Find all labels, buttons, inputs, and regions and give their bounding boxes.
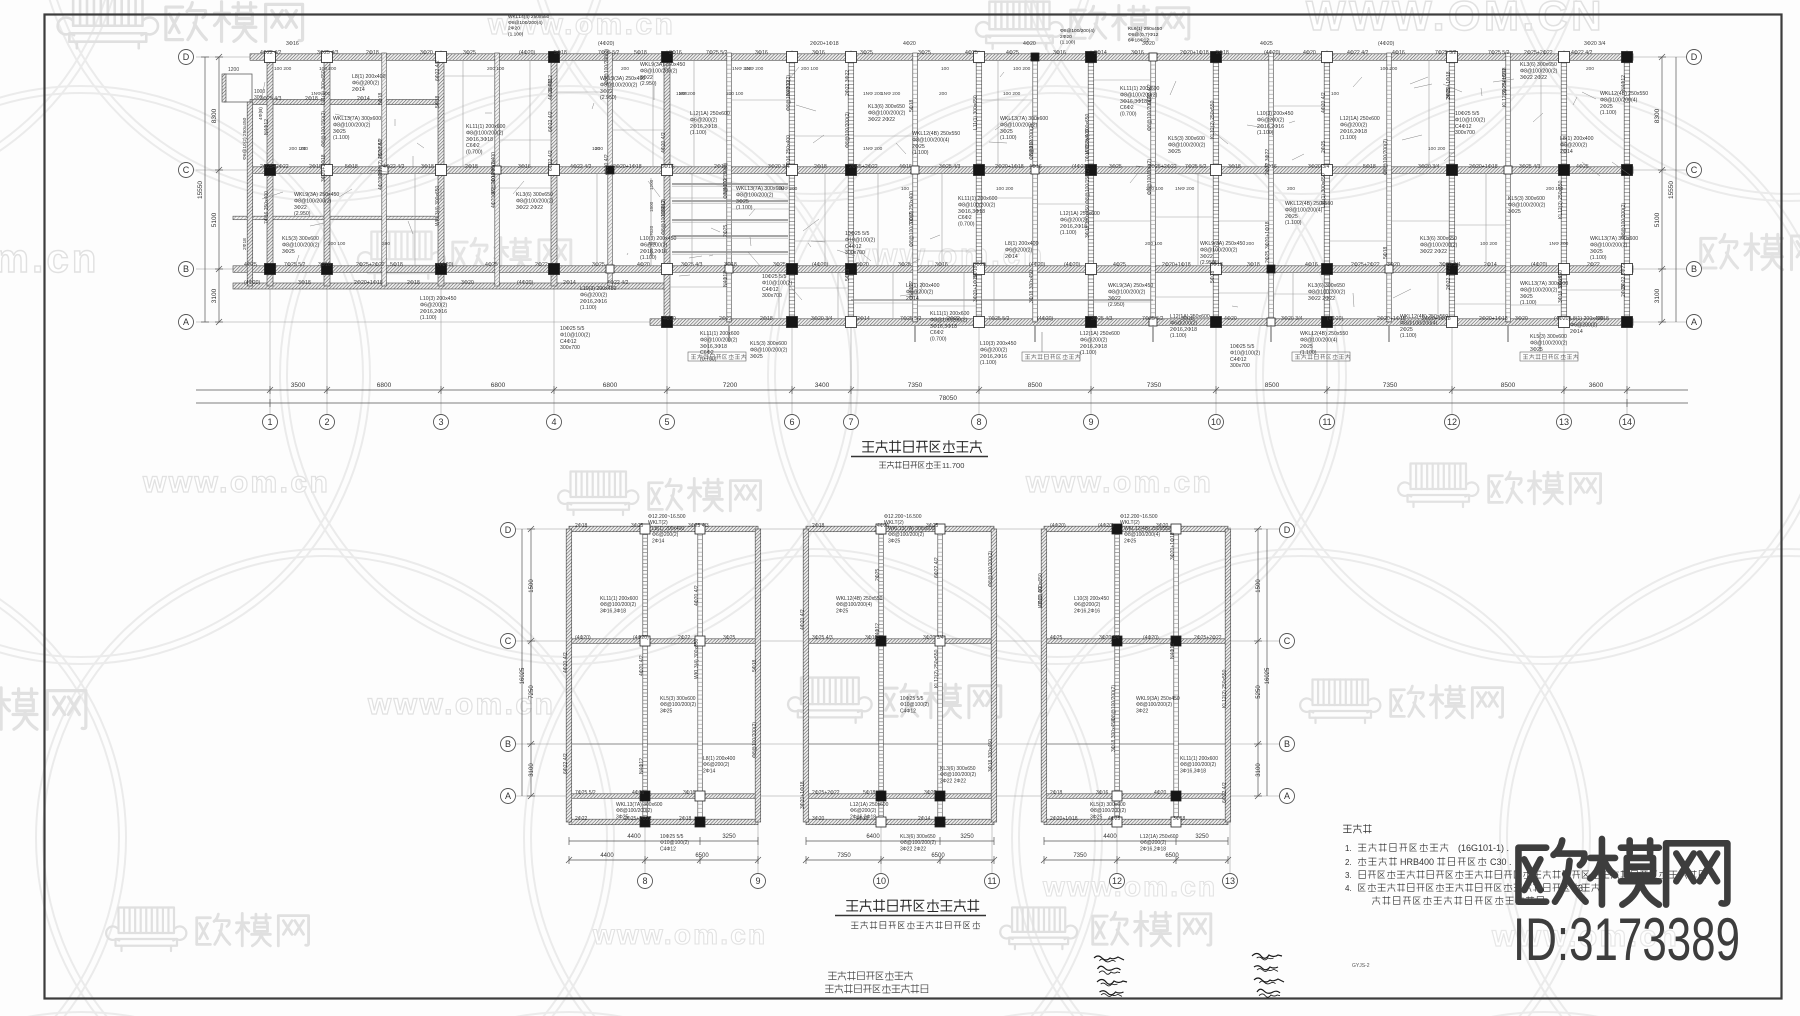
- axis line A: [196, 321, 1688, 323]
- svg-text:L8(1) 200x400: L8(1) 200x400: [703, 756, 735, 762]
- svg-text:4400: 4400: [600, 853, 614, 859]
- svg-text:3Φ20: 3Φ20: [812, 816, 825, 822]
- svg-text:3Φ25: 3Φ25: [1508, 209, 1521, 215]
- svg-text:2Φ16,2Φ18: 2Φ16,2Φ18: [1170, 327, 1197, 333]
- svg-text:Φ6@200(2): Φ6@200(2): [352, 80, 380, 86]
- beam lower-left edge: [233, 283, 667, 289]
- left vertical dimension chain: [201, 54, 223, 325]
- svg-text:1500: 1500: [529, 579, 535, 593]
- svg-text:(4Φ20): (4Φ20): [1050, 523, 1066, 529]
- svg-text:6800: 6800: [377, 382, 392, 389]
- svg-text:WKL9(3A) 250x450: WKL9(3A) 250x450: [1136, 696, 1180, 702]
- svg-text:100 200: 100 200: [996, 186, 1014, 192]
- svg-text:2Φ18: 2Φ18: [575, 523, 588, 529]
- svg-text:3Φ20: 3Φ20: [1387, 262, 1400, 268]
- svg-text:2Φ25: 2Φ25: [836, 608, 849, 614]
- svg-text:8500: 8500: [1265, 382, 1280, 389]
- svg-text:3Φ25: 3Φ25: [616, 814, 629, 820]
- svg-text:200 100: 200 100: [1146, 186, 1164, 192]
- svg-text:WKL13(7A) 300x600: WKL13(7A) 300x600: [616, 802, 663, 808]
- svg-text:L12(1A) 250x600: L12(1A) 250x600: [1080, 331, 1120, 337]
- svg-text:2Φ14: 2Φ14: [1005, 254, 1018, 260]
- svg-text:L12(1A) 250x600: L12(1A) 250x600: [850, 802, 889, 808]
- svg-text:3Φ22 2Φ22: 3Φ22 2Φ22: [1308, 296, 1335, 302]
- svg-text:100 200: 100 200: [1480, 241, 1498, 247]
- svg-text:3Φ22 2Φ22: 3Φ22 2Φ22: [900, 846, 926, 852]
- svg-text:9: 9: [755, 876, 760, 886]
- svg-text:3Φ25 4/3: 3Φ25 4/3: [812, 635, 833, 641]
- svg-text:4Φ25: 4Φ25: [965, 50, 978, 56]
- multi-line annotation blocks (top plan): [282, 62, 1648, 369]
- bottom plans axis lines: [516, 529, 1280, 796]
- svg-text:10: 10: [876, 876, 886, 886]
- svg-text:3Φ25 4/3: 3Φ25 4/3: [317, 50, 339, 56]
- svg-text:C4Φ12: C4Φ12: [900, 708, 916, 714]
- svg-text:(1.100): (1.100): [1285, 220, 1302, 226]
- svg-text:2Φ14: 2Φ14: [703, 768, 716, 774]
- secondary beam x=1153: [1151, 53, 1156, 322]
- svg-text:4Φ25: 4Φ25: [1006, 50, 1019, 56]
- svg-text:(1.100): (1.100): [1257, 130, 1274, 136]
- svg-text:C30 .: C30 .: [1490, 857, 1512, 867]
- svg-text:(2.950): (2.950): [294, 211, 311, 217]
- svg-text:B: B: [1691, 264, 1697, 274]
- notes shuoming block: [1343, 825, 1371, 834]
- svg-text:L10(3) 200x450: L10(3) 200x450: [640, 236, 676, 242]
- svg-text:7Φ25 5/2: 7Φ25 5/2: [1435, 50, 1457, 56]
- svg-text:4Φ20: 4Φ20: [1224, 316, 1237, 322]
- svg-text:1800: 1800: [649, 201, 654, 212]
- svg-text:Φ8@100/200(2): Φ8@100/200(2): [988, 551, 994, 587]
- svg-text:2Φ18: 2Φ18: [812, 523, 825, 529]
- svg-text:2Φ16,2Φ16: 2Φ16,2Φ16: [1074, 608, 1100, 614]
- svg-text:C4Φ12: C4Φ12: [1230, 357, 1247, 363]
- svg-text:4Φ20 4/2: 4Φ20 4/2: [800, 609, 806, 630]
- svg-text:3Φ25: 3Φ25: [736, 199, 749, 205]
- beam axis A right part: [650, 319, 1633, 326]
- svg-text:KL12(2) 250x550: KL12(2) 250x550: [378, 139, 384, 178]
- svg-text:KL3(6) 300x650: KL3(6) 300x650: [516, 192, 553, 198]
- svg-text:10Φ25 5/5: 10Φ25 5/5: [845, 231, 869, 237]
- svg-text:Φ8@100/200(2): Φ8@100/200(2): [1420, 242, 1458, 248]
- svg-text:3Φ22: 3Φ22: [1200, 254, 1213, 260]
- svg-text:4Φ16: 4Φ16: [1305, 262, 1318, 268]
- svg-text:WKL9(3A) 250x450: WKL9(3A) 250x450: [600, 76, 645, 82]
- svg-text:7Φ25 5/2: 7Φ25 5/2: [706, 50, 728, 56]
- svg-text:(4Φ20): (4Φ20): [519, 50, 536, 56]
- bottom plan 1 walls and beams: [566, 526, 761, 825]
- svg-text:L12(1A) 250x600: L12(1A) 250x600: [1140, 834, 1179, 840]
- svg-text:7350: 7350: [837, 853, 851, 859]
- svg-text:(0.700): (0.700): [958, 222, 975, 228]
- svg-text:4Φ22 4/2: 4Φ22 4/2: [1347, 50, 1369, 56]
- subtitle 2: [851, 921, 979, 928]
- svg-text:Φ8@100/200(2): Φ8@100/200(2): [616, 808, 652, 814]
- svg-text:3Φ18: 3Φ18: [1247, 262, 1260, 268]
- svg-text:Φ8@100/200(4): Φ8@100/200(4): [1600, 97, 1638, 103]
- rotated texts along left wall: [242, 107, 264, 250]
- svg-text:WKL14(4) 250x550: WKL14(4) 250x550: [508, 14, 550, 20]
- svg-text:WKLT(2): WKLT(2): [648, 520, 668, 526]
- beam axis B: [233, 266, 1633, 273]
- secondary beam x=610: [608, 53, 613, 286]
- bottom plans bottom dims: [566, 837, 1231, 864]
- svg-text:2Φ16,2Φ18: 2Φ16,2Φ18: [1080, 344, 1107, 350]
- svg-text:4: 4: [551, 417, 556, 427]
- svg-text:3Φ22 2Φ22: 3Φ22 2Φ22: [1420, 249, 1447, 255]
- svg-text:7Φ25 5/2: 7Φ25 5/2: [575, 790, 596, 796]
- svg-text:200: 200: [1287, 186, 1295, 192]
- sub beam B-A mid right: [851, 299, 1153, 301]
- annotation texts along beams (top plan): [244, 41, 1609, 322]
- svg-text:7Φ25 5/2: 7Φ25 5/2: [988, 316, 1010, 322]
- svg-text:(1.100): (1.100): [508, 31, 524, 37]
- svg-text:2Φ20: 2Φ20: [1060, 34, 1072, 40]
- svg-text:5100: 5100: [1654, 212, 1661, 227]
- svg-text:3Φ25: 3Φ25: [282, 249, 295, 255]
- svg-text:5250: 5250: [1256, 685, 1262, 699]
- svg-text:KL12(2) 250x550: KL12(2) 250x550: [934, 649, 940, 688]
- svg-text:10Φ25 5/5: 10Φ25 5/5: [762, 274, 786, 280]
- svg-text:3Φ20 3/4: 3Φ20 3/4: [1584, 41, 1606, 47]
- svg-text:2Φ25+2Φ22: 2Φ25+2Φ22: [812, 790, 840, 796]
- svg-text:2Φ25: 2Φ25: [1265, 250, 1271, 263]
- svg-text:3Φ22: 3Φ22: [1108, 296, 1121, 302]
- watermark logo top-right-center: [989, 2, 1049, 30]
- svg-text:78050: 78050: [939, 395, 957, 402]
- svg-text:Φ10@100(2): Φ10@100(2): [1455, 117, 1485, 123]
- svg-text:4Φ20 4/2: 4Φ20 4/2: [639, 655, 645, 676]
- watermark logo row3: [571, 472, 627, 498]
- svg-text:3Φ25: 3Φ25: [1590, 249, 1603, 255]
- svg-text:A: A: [183, 317, 189, 327]
- svg-text:7Φ16 250x400: 7Φ16 250x400: [264, 191, 270, 224]
- svg-text:3Φ25: 3Φ25: [918, 50, 931, 56]
- svg-text:D: D: [183, 52, 190, 62]
- beam column line 13: [1561, 53, 1567, 322]
- axis line D: [196, 56, 1688, 58]
- svg-text:Φ8@100/200(2): Φ8@100/200(2): [600, 602, 636, 608]
- svg-text:KL3(6) 300x650: KL3(6) 300x650: [868, 104, 905, 110]
- svg-text:2Φ25: 2Φ25: [1300, 344, 1313, 350]
- svg-text:L11(1) 300x650: L11(1) 300x650: [321, 70, 327, 105]
- beam column line 5: [664, 53, 670, 322]
- column squares top plan: [265, 52, 1633, 328]
- secondary beam x=1271: [1269, 53, 1274, 322]
- svg-text:2Φ18: 2Φ18: [465, 164, 478, 170]
- svg-text:Φ8@100/200(2): Φ8@100/200(2): [640, 68, 678, 74]
- svg-text:C4Φ12: C4Φ12: [660, 846, 676, 852]
- svg-text:Φ8@100/200(2): Φ8@100/200(2): [282, 242, 320, 248]
- svg-text:3Φ25: 3Φ25: [898, 262, 911, 268]
- svg-text:5Φ18: 5Φ18: [752, 659, 758, 672]
- svg-text:Φ8@100/200(4): Φ8@100/200(4): [1060, 28, 1095, 34]
- svg-text:2Φ14: 2Φ14: [652, 538, 665, 544]
- svg-text:9: 9: [1088, 417, 1093, 427]
- svg-text:4Φ22 4/2: 4Φ22 4/2: [260, 50, 282, 56]
- svg-text:C4Φ12: C4Φ12: [762, 287, 779, 293]
- svg-text:Φ8@100/200(2): Φ8@100/200(2): [1090, 808, 1126, 814]
- svg-text:2Φ25+2Φ22: 2Φ25+2Φ22: [1524, 50, 1553, 56]
- svg-text:KL5(3) 300x600: KL5(3) 300x600: [750, 341, 787, 347]
- svg-text:7Φ25 5/2: 7Φ25 5/2: [1185, 164, 1207, 170]
- svg-text:3Φ16: 3Φ16: [935, 262, 948, 268]
- svg-text:3Φ20+1Φ18: 3Φ20+1Φ18: [1265, 221, 1271, 249]
- svg-text:3400: 3400: [815, 382, 830, 389]
- svg-text:3Φ25: 3Φ25: [463, 50, 476, 56]
- svg-text:Φ8@100/200(2): Φ8@100/200(2): [1111, 685, 1117, 721]
- svg-text:5: 5: [664, 417, 669, 427]
- svg-text:7Φ25 5/2: 7Φ25 5/2: [1488, 50, 1510, 56]
- svg-text:7Φ25 5/2: 7Φ25 5/2: [1142, 316, 1164, 322]
- svg-text:4Φ20: 4Φ20: [1023, 41, 1036, 47]
- svg-text:5Φ18: 5Φ18: [1363, 164, 1376, 170]
- subtitle 1: [879, 461, 940, 468]
- bottom plans number bubbles: [638, 874, 1238, 889]
- svg-text:7Φ16 250x400: 7Φ16 250x400: [786, 135, 792, 168]
- svg-text:1: 1: [267, 417, 272, 427]
- svg-text:3.: 3.: [1345, 871, 1352, 880]
- secondary beam x=1035: [1033, 53, 1038, 322]
- svg-text:5Φ18: 5Φ18: [554, 50, 567, 56]
- bottom plan 2 columns: [876, 524, 945, 827]
- svg-text:(1.100): (1.100): [420, 315, 437, 321]
- svg-text:3100: 3100: [529, 763, 535, 777]
- svg-text:1NΦ 200: 1NΦ 200: [1549, 241, 1569, 247]
- svg-text:4Φ20: 4Φ20: [1154, 790, 1167, 796]
- svg-text:3Φ25: 3Φ25: [592, 262, 605, 268]
- svg-text:(4Φ20): (4Φ20): [1029, 262, 1046, 268]
- svg-text:3Φ20 3/4: 3Φ20 3/4: [1099, 635, 1120, 641]
- svg-text:KL3(6) 300x650: KL3(6) 300x650: [1308, 283, 1345, 289]
- watermark logo row2 right edge: [1701, 238, 1716, 268]
- svg-text:C6Φ2: C6Φ2: [1120, 105, 1134, 111]
- bottom plans annotation blocks: [600, 526, 1218, 852]
- svg-text:Φ12.200~16.500: Φ12.200~16.500: [648, 514, 686, 520]
- svg-text:L12(1A) 250x600: L12(1A) 250x600: [1170, 314, 1210, 320]
- svg-text:3Φ16: 3Φ16: [683, 790, 696, 796]
- svg-text:(2.950): (2.950): [1200, 260, 1217, 266]
- svg-text:www.om.cn: www.om.cn: [142, 466, 330, 499]
- svg-text:Φ8@100/200(2): Φ8@100/200(2): [1180, 762, 1216, 768]
- svg-text:WKL12(4B) 250x550: WKL12(4B) 250x550: [1600, 91, 1648, 97]
- svg-text:Φ12.200~16.500: Φ12.200~16.500: [1120, 514, 1158, 520]
- watermark logo row4 mid: [801, 678, 859, 705]
- beam sub C-B left: [233, 216, 441, 220]
- svg-text:200: 200: [679, 91, 687, 97]
- svg-text:(2.950): (2.950): [600, 95, 617, 101]
- svg-text:3Φ16,3Φ18: 3Φ16,3Φ18: [466, 137, 493, 143]
- svg-text:WKL12(4B) 250x550: WKL12(4B) 250x550: [1285, 201, 1333, 207]
- svg-text:L8(1) 200x400: L8(1) 200x400: [1005, 241, 1039, 247]
- dense leader blocks above axis D: [508, 14, 1162, 46]
- svg-text:KL11(1) 200x600: KL11(1) 200x600: [700, 331, 740, 337]
- svg-text:100: 100: [1331, 91, 1339, 97]
- svg-text:Φ10@100(2): Φ10@100(2): [845, 237, 875, 243]
- svg-text:(0.700): (0.700): [930, 337, 947, 343]
- svg-text:300x700: 300x700: [1455, 130, 1475, 136]
- svg-text:KL11(1) 200x600: KL11(1) 200x600: [958, 196, 998, 202]
- svg-text:Φ8@100/200(2): Φ8@100/200(2): [294, 198, 332, 204]
- wall left edge x250: [247, 102, 253, 286]
- svg-text:L8(1) 200x400: L8(1) 200x400: [906, 283, 940, 289]
- svg-text:(4Φ20): (4Φ20): [437, 262, 454, 268]
- svg-text:2Φ16,2Φ16: 2Φ16,2Φ16: [1257, 124, 1284, 130]
- svg-text:KL3(6) 300x650: KL3(6) 300x650: [940, 766, 976, 772]
- svg-text:2.: 2.: [1345, 858, 1352, 867]
- svg-text:3Φ16: 3Φ16: [865, 635, 878, 641]
- svg-text:2Φ22: 2Φ22: [1587, 262, 1600, 268]
- svg-text:www.om.cn: www.om.cn: [0, 237, 100, 281]
- svg-text:4Φ25: 4Φ25: [1113, 262, 1126, 268]
- svg-text:3Φ16,3Φ18: 3Φ16,3Φ18: [1180, 768, 1206, 774]
- svg-text:6Φ22 4/2: 6Φ22 4/2: [934, 557, 940, 578]
- svg-text:(1.100): (1.100): [333, 135, 350, 141]
- svg-text:1NΦ 200: 1NΦ 200: [311, 91, 331, 97]
- svg-text:L12(1A) 250x600: L12(1A) 250x600: [1340, 116, 1380, 122]
- signature cluster 1: [1094, 954, 1284, 998]
- svg-text:7200: 7200: [723, 382, 738, 389]
- svg-text:KL5(3) 300x600: KL5(3) 300x600: [660, 696, 696, 702]
- svg-text:2Φ25+2Φ22: 2Φ25+2Φ22: [849, 164, 878, 170]
- svg-text:(1.100): (1.100): [980, 360, 997, 366]
- svg-text:3Φ25: 3Φ25: [1109, 164, 1122, 170]
- svg-text:KL5(3) 300x600: KL5(3) 300x600: [282, 236, 319, 242]
- svg-text:Φ6@200(2): Φ6@200(2): [703, 762, 730, 768]
- svg-text:(1.100): (1.100): [1060, 40, 1076, 46]
- svg-text:3Φ22 2Φ22: 3Φ22 2Φ22: [940, 778, 966, 784]
- svg-text:2Φ22: 2Φ22: [535, 262, 548, 268]
- svg-text:2Φ14: 2Φ14: [906, 296, 919, 302]
- svg-text:(4Φ20): (4Φ20): [517, 280, 534, 286]
- svg-text:D: D: [1284, 525, 1291, 535]
- svg-text:3Φ18: 3Φ18: [421, 164, 434, 170]
- svg-text:2Φ25: 2Φ25: [912, 144, 925, 150]
- svg-text:(4Φ20): (4Φ20): [633, 635, 649, 641]
- svg-text:Φ6@200(2): Φ6@200(2): [1570, 322, 1598, 328]
- svg-text:KL5(3) 300x600: KL5(3) 300x600: [1168, 136, 1205, 142]
- svg-text:2Φ20+1Φ18: 2Φ20+1Φ18: [1162, 262, 1191, 268]
- svg-text:2Φ16,2Φ18: 2Φ16,2Φ18: [1340, 129, 1367, 135]
- secondary beam x=1389: [1387, 53, 1392, 322]
- svg-text:6: 6: [789, 417, 794, 427]
- svg-text:2Φ18: 2Φ18: [366, 50, 379, 56]
- svg-text:WKL9(3A) 250x450: WKL9(3A) 250x450: [640, 62, 685, 68]
- svg-text:Φ8@100/200(2): Φ8@100/200(2): [888, 532, 924, 538]
- svg-text:L8(1) 200x400: L8(1) 200x400: [352, 74, 386, 80]
- svg-text:WKLT(2): WKLT(2): [884, 520, 904, 526]
- title: second floor roof beam plan: [863, 441, 982, 453]
- beam column line 4: [551, 53, 557, 286]
- svg-text:10Φ25 5/5: 10Φ25 5/5: [900, 696, 924, 702]
- svg-text:KL11(1) 200x600: KL11(1) 200x600: [1120, 86, 1160, 92]
- svg-text:5Φ18: 5Φ18: [378, 92, 384, 105]
- svg-text:8500: 8500: [1028, 382, 1043, 389]
- svg-text:4Φ(B): 4Φ(B): [258, 107, 264, 120]
- svg-text:2Φ22 3Φ22: 2Φ22 3Φ22: [1621, 263, 1627, 289]
- svg-text:4Φ20: 4Φ20: [663, 316, 676, 322]
- svg-text:200: 200: [300, 146, 308, 152]
- svg-text:KL5(3) 300x600: KL5(3) 300x600: [1530, 334, 1567, 340]
- svg-text:WKL3(4) 300x650: WKL3(4) 300x650: [694, 638, 700, 679]
- svg-text:3Φ16: 3Φ16: [661, 164, 674, 170]
- svg-text:8300: 8300: [211, 108, 218, 123]
- watermark logo row4 right: [1313, 680, 1369, 706]
- svg-text:WKL12(4B) 250x550: WKL12(4B) 250x550: [1400, 314, 1448, 320]
- axis line B: [196, 268, 1688, 270]
- svg-text:4Φ22 4/2: 4Φ22 4/2: [570, 164, 592, 170]
- svg-text:www.om.cn: www.om.cn: [367, 688, 555, 721]
- svg-text:2Φ20+1Φ18: 2Φ20+1Φ18: [354, 280, 383, 286]
- secondary beam x=915: [913, 53, 918, 322]
- left axis bubbles DCBA: [179, 50, 1702, 330]
- svg-text:5Φ18: 5Φ18: [435, 95, 441, 108]
- svg-text:3600: 3600: [1589, 382, 1604, 389]
- vertical axis lines cols 1-14: [269, 50, 271, 414]
- watermark logo row5 mid: [1012, 907, 1065, 931]
- svg-text:2Φ20+1Φ18: 2Φ20+1Φ18: [1479, 316, 1508, 322]
- svg-text:KL5(3) 300x600: KL5(3) 300x600: [1090, 802, 1126, 808]
- beam column line 1: [267, 53, 273, 286]
- svg-text:3Φ16: 3Φ16: [755, 50, 768, 56]
- svg-text:L12(1A) 250x600: L12(1A) 250x600: [690, 111, 730, 117]
- svg-text:3Φ16,3Φ18: 3Φ16,3Φ18: [930, 324, 957, 330]
- svg-text:2Φ25: 2Φ25: [723, 224, 729, 237]
- svg-text:7350: 7350: [908, 382, 923, 389]
- svg-text:2Φ14: 2Φ14: [918, 816, 931, 822]
- svg-text:(1.100): (1.100): [912, 150, 929, 156]
- svg-text:15550: 15550: [197, 181, 204, 199]
- svg-text:N4Φ12: N4Φ12: [548, 75, 554, 91]
- svg-text:2Φ22: 2Φ22: [678, 635, 691, 641]
- svg-text:4Φ20 4/2: 4Φ20 4/2: [694, 585, 700, 606]
- svg-text:3Φ25: 3Φ25: [660, 708, 673, 714]
- svg-text:2Φ20: 2Φ20: [508, 26, 520, 32]
- svg-text:WKL9(3A) 250x450: WKL9(3A) 250x450: [1108, 283, 1153, 289]
- svg-text:4Φ16: 4Φ16: [632, 790, 645, 796]
- svg-text:KL11(1) 200x600: KL11(1) 200x600: [466, 124, 506, 130]
- svg-text:4Φ16: 4Φ16: [1392, 50, 1405, 56]
- beam column line 14: [1624, 53, 1630, 322]
- svg-text:(4Φ20): (4Φ20): [598, 41, 615, 47]
- svg-text:Φ8@100/200(2): Φ8@100/200(2): [1383, 139, 1389, 175]
- svg-text:WWW.OM.CN: WWW.OM.CN: [1306, 0, 1605, 39]
- svg-text:Φ8@100/200(2): Φ8@100/200(2): [700, 337, 738, 343]
- svg-text:Φ8@100/200(2): Φ8@100/200(2): [1308, 289, 1346, 295]
- svg-text:6800: 6800: [491, 382, 506, 389]
- svg-text:3Φ16: 3Φ16: [318, 262, 331, 268]
- svg-text:4Φ22 4/2: 4Φ22 4/2: [1571, 50, 1593, 56]
- svg-text:KL6(1) 250x450: KL6(1) 250x450: [1128, 26, 1162, 32]
- svg-text:WKL12(4B) 250x550: WKL12(4B) 250x550: [836, 596, 883, 602]
- beam column line 10: [1213, 53, 1219, 322]
- svg-text:C4Φ12: C4Φ12: [1455, 124, 1472, 130]
- svg-text:2Φ16,2Φ18: 2Φ16,2Φ18: [1140, 846, 1166, 852]
- svg-text:11: 11: [1322, 417, 1331, 427]
- svg-text:10Φ25 5/5: 10Φ25 5/5: [660, 834, 684, 840]
- svg-text:100 200: 100 200: [1380, 66, 1398, 72]
- svg-text:Φ8@100/200(2): Φ8@100/200(2): [1029, 124, 1035, 160]
- svg-text:(1.100): (1.100): [640, 255, 657, 261]
- svg-text:4Φ20: 4Φ20: [903, 41, 916, 47]
- svg-text:4Φ22 4/2: 4Φ22 4/2: [383, 164, 405, 170]
- svg-text:5Φ18: 5Φ18: [390, 262, 403, 268]
- svg-text:2Φ22 3Φ22: 2Φ22 3Φ22: [1265, 149, 1271, 175]
- svg-text:3Φ25: 3Φ25: [750, 354, 763, 360]
- svg-text:3Φ16: 3Φ16: [1096, 790, 1109, 796]
- svg-text:7350: 7350: [1383, 382, 1398, 389]
- svg-text:3Φ16,3Φ18: 3Φ16,3Φ18: [958, 209, 985, 215]
